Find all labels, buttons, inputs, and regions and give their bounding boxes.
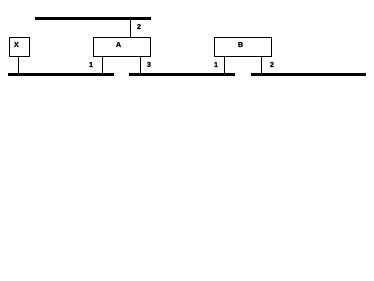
label X xyxy=(14,42,19,49)
repeater A (box) xyxy=(93,37,151,57)
label B xyxy=(238,42,243,49)
wire: top trunk bus line xyxy=(35,17,151,20)
wire: bus segment 1 xyxy=(8,73,114,76)
pin label 2 (B) xyxy=(270,62,274,69)
wire: drop from X to segment 1 xyxy=(18,57,19,73)
label A xyxy=(116,42,121,49)
wire: B pin 2 drop to segment 3 xyxy=(261,57,262,73)
wire: A pin 3 drop to segment 2 xyxy=(140,57,141,73)
pin label 1 (B) xyxy=(214,62,218,69)
pin label 3 (A) xyxy=(147,62,151,69)
wire: bus segment 3 xyxy=(251,73,366,76)
wire: bus segment 2 xyxy=(129,73,235,76)
wire: B pin 1 drop to segment 2 xyxy=(224,57,225,73)
repeater B (box) xyxy=(214,37,272,57)
wire: vertical drop from trunk to repeater A top xyxy=(130,19,131,37)
wire: A pin 1 drop to segment 1 xyxy=(102,57,103,73)
pin label 1 (A) xyxy=(89,62,93,69)
pin label 2 (top of A) xyxy=(137,24,141,31)
node X (station box) xyxy=(9,37,30,57)
